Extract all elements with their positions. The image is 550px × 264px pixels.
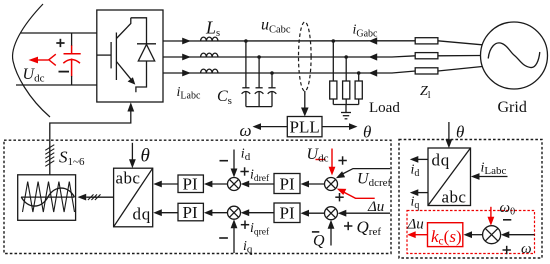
label Qbar: [313, 233, 325, 250]
svg-text:θ: θ: [363, 123, 371, 142]
svg-text:Udc: Udc: [23, 66, 45, 85]
impedance Zl phase C: [415, 68, 438, 74]
PI block R2: [274, 203, 300, 223]
iq feedback input: [233, 227, 235, 254]
label S1~6: [59, 148, 85, 169]
svg-text:id: id: [241, 147, 251, 164]
svg-text:iLabc: iLabc: [481, 161, 507, 178]
diode D1 triangle: [138, 45, 154, 62]
inductor Ls phase A: [201, 37, 218, 41]
svg-text:kc(s): kc(s): [431, 227, 462, 248]
wire load bus: [333, 104, 358, 106]
omega0 red input: [488, 207, 495, 226]
node A cap tap: [244, 39, 248, 43]
svg-text:Grid: Grid: [498, 99, 527, 116]
svg-text:PI: PI: [280, 204, 295, 223]
label Grid: [498, 99, 527, 116]
wire Qref input: [345, 212, 390, 214]
wire Zl to grid A: [438, 41, 482, 45]
label Cs: [217, 88, 232, 107]
node load tap C: [357, 71, 361, 75]
svg-text:Udcref: Udcref: [357, 171, 391, 190]
load resistor A: [330, 41, 337, 105]
node load tap B: [344, 55, 348, 59]
id output right box: [417, 158, 428, 160]
svg-text:abc: abc: [116, 169, 141, 188]
label delta-u left: [367, 199, 384, 215]
label iLabc: [177, 85, 201, 102]
svg-text:S1~6: S1~6: [59, 148, 85, 169]
svg-text:dq: dq: [133, 205, 152, 224]
node load tap A: [332, 39, 336, 43]
svg-text:iLabc: iLabc: [177, 85, 201, 102]
phase line C: [163, 71, 416, 73]
svg-text:iqref: iqref: [250, 221, 270, 238]
wire sum-d to PI L1: [211, 183, 228, 185]
label idref with plus: [240, 167, 248, 175]
inductor Ls phase B: [201, 53, 218, 57]
wire Cs bus: [246, 106, 272, 108]
kc(s) block: [428, 223, 463, 247]
plus sign Qref: [344, 222, 352, 230]
svg-text:PI: PI: [183, 203, 198, 222]
wire sum-omega to kc: [471, 234, 483, 236]
summing junction omega: [483, 226, 501, 244]
summing junction q current: [228, 206, 241, 219]
arrow iL phase B: [182, 54, 191, 61]
svg-text:idref: idref: [250, 168, 270, 185]
wire DC positive rail: [20, 32, 97, 34]
abc/dq transform block: [114, 168, 153, 227]
svg-text:Qref: Qref: [357, 218, 382, 239]
phase line A: [163, 40, 416, 42]
svg-text:Udc: Udc: [307, 146, 329, 165]
wire PI L1 to abc/dq: [161, 183, 179, 185]
svg-text:Δu: Δu: [407, 217, 424, 233]
omega input wire: [508, 234, 535, 236]
theta input to abc/dq: [131, 143, 133, 161]
svg-text:Cs: Cs: [217, 88, 232, 107]
label theta PLL: [363, 123, 371, 142]
wire PI R1 to sum-d: [248, 183, 274, 185]
wire cap leads: [71, 33, 73, 46]
PWM carrier triangles: [23, 182, 75, 212]
svg-text:Q: Q: [313, 233, 325, 250]
control dashed box right: [399, 140, 542, 259]
impedance Zl phase B: [415, 53, 438, 59]
wire ellipse to PLL: [304, 91, 306, 110]
iq output right box: [417, 192, 428, 194]
dq/abc transform block right: [428, 148, 471, 206]
IGBT Q1 gate lead: [97, 54, 111, 56]
wire Zl to grid C: [438, 67, 482, 72]
svg-text:dq: dq: [432, 151, 451, 170]
PI block L2: [178, 203, 203, 221]
svg-text:id: id: [411, 163, 420, 180]
PLL block: [287, 117, 322, 137]
arrow iG phase C: [369, 69, 378, 76]
measurement ellipse: [299, 22, 312, 91]
IGBT Q1 body bar: [115, 33, 117, 81]
load resistor C: [355, 73, 362, 105]
summing junction Q: [325, 207, 338, 220]
svg-text:Ls: Ls: [205, 18, 220, 40]
impedance Zl phase A: [415, 38, 438, 44]
svg-text:Load: Load: [369, 100, 400, 116]
summing junction Udc: [325, 178, 338, 191]
bus slash marks S1-6: [45, 145, 54, 167]
label iqref with plus: [241, 221, 249, 229]
wire sum-Udc to PI R1: [308, 183, 325, 185]
svg-text:iGabc: iGabc: [353, 23, 379, 40]
PI block L1: [178, 175, 203, 193]
label Qref: [357, 218, 382, 239]
label Load: [369, 100, 400, 116]
summing junction d current: [228, 178, 241, 191]
svg-text:abc: abc: [442, 188, 467, 207]
ground load: [341, 105, 351, 119]
wire PI to PWM with slashes: [86, 196, 113, 198]
label iGabc: [353, 23, 379, 40]
arrow iL phase C: [182, 70, 191, 77]
control dashed box left: [4, 140, 391, 253]
current arrow idc (red): [29, 54, 56, 65]
svg-text:PLL: PLL: [290, 118, 320, 137]
node B cap tap: [257, 55, 261, 59]
wire Zl to grid B: [438, 55, 481, 57]
svg-text:uCabc: uCabc: [261, 17, 291, 36]
wire Udcref input: [341, 169, 391, 175]
svg-text:θ: θ: [141, 146, 150, 167]
arrow iL phase A: [182, 38, 191, 45]
label Udc: [23, 66, 45, 85]
load resistor B: [343, 57, 350, 105]
capacitor Cs phase C: [268, 73, 277, 107]
red output arrow delta-u: [407, 231, 427, 238]
minus sign omega0: [503, 219, 511, 221]
IGBT Q1 gate bar: [110, 42, 112, 68]
svg-text:iq: iq: [243, 239, 253, 256]
capacitor Cs phase A: [242, 41, 251, 107]
phase line B: [163, 56, 416, 57]
label Zl: [420, 84, 431, 101]
plus sign omega: [503, 246, 511, 254]
svg-text:Zl: Zl: [420, 84, 431, 101]
grid source G1: [481, 22, 548, 89]
svg-text:ω0: ω0: [500, 200, 516, 218]
label uCabc: [261, 17, 291, 36]
PWM block: [18, 175, 76, 221]
arrow iG phase A: [369, 37, 378, 44]
plus sign Udcref: [338, 156, 346, 164]
IGBT Q1 emitter with arrow: [116, 62, 133, 82]
inductor Ls phase C: [201, 69, 218, 73]
wire PLL theta out: [322, 126, 350, 128]
wire DC negative rail: [16, 84, 97, 86]
plus sign delta-u at sum-Udc: [335, 193, 343, 201]
minus sign Qbar: [312, 231, 319, 233]
arrow iG phase B: [369, 53, 378, 60]
DC source break curve: [13, 4, 50, 117]
minus sign cap: [59, 71, 70, 73]
capacitor Cdc (red, polarized): [63, 45, 80, 77]
wire sum-q to PI L2: [211, 212, 228, 214]
label omega right: [521, 241, 532, 257]
arrow into PWM: [78, 194, 87, 201]
label Udcref: [357, 171, 391, 190]
theta input right box: [448, 122, 450, 141]
svg-text:ω: ω: [521, 241, 532, 257]
svg-text:θ: θ: [456, 123, 464, 142]
wire sum-Q to PI R2: [308, 212, 325, 214]
plus sign cap: [56, 39, 64, 47]
wire diode to emitter: [136, 61, 147, 92]
IGBT Q1 collector: [116, 18, 130, 39]
node C cap tap: [270, 71, 274, 75]
svg-text:ω: ω: [240, 121, 252, 140]
id feedback input: [233, 150, 235, 171]
gate drive arrow into inverter: [50, 111, 131, 175]
wire collector to diode: [131, 18, 147, 44]
iLabc input right box: [478, 176, 507, 178]
PWM sine reference: [21, 188, 74, 206]
label Udc control: [307, 146, 329, 165]
label Ls: [205, 18, 220, 40]
svg-text:PI: PI: [183, 175, 198, 194]
label delta-u right: [407, 217, 424, 233]
svg-text:PI: PI: [280, 175, 295, 194]
label omega0: [500, 200, 516, 218]
delta-u red feed into sum-Udc: [337, 189, 375, 199]
wire PI R2 to sum-q: [248, 212, 274, 214]
inverter block U1: [97, 10, 163, 102]
PWM midline: [21, 196, 75, 198]
svg-text:iq: iq: [411, 195, 420, 212]
Udc red measurement arrow: [316, 149, 336, 176]
grid sine symbol: [488, 43, 540, 68]
wire PI L2 to abc/dq: [161, 212, 179, 214]
wire PLL omega out: [260, 126, 287, 128]
diode D1 bar: [137, 43, 156, 45]
Qbar feedback input: [330, 227, 332, 246]
label omega PLL: [240, 121, 252, 140]
capacitor Cs phase B: [255, 57, 264, 107]
PI block R1: [274, 174, 300, 194]
red dashed feedforward box: [407, 211, 535, 254]
